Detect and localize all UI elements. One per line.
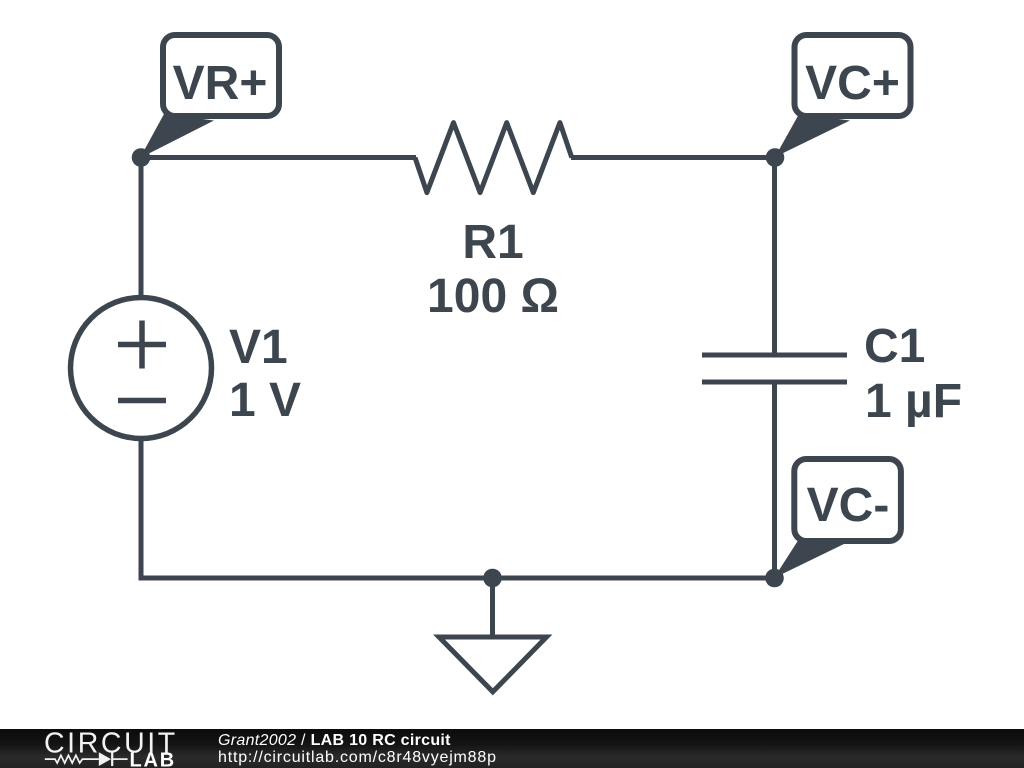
ground symbol triangle xyxy=(439,637,547,692)
node ground junction dot xyxy=(483,569,502,588)
node VR+ junction dot xyxy=(132,148,151,167)
svg-text:LAB: LAB xyxy=(130,750,177,768)
svg-text:VC-: VC- xyxy=(807,479,890,532)
wire right vertical upper: node VC+ down to capacitor C1 top plate xyxy=(772,158,777,356)
svg-text:100 Ω: 100 Ω xyxy=(427,270,559,323)
flag VR+ box xyxy=(163,35,279,116)
wire left vertical lower: V1 bottom terminal down to bottom rail xyxy=(139,438,144,580)
flag VR+ pointer wedge xyxy=(140,114,214,158)
svg-text:C1: C1 xyxy=(864,320,925,373)
V1 plus sign xyxy=(118,321,166,369)
wire left vertical upper: node VR+ down to V1 top terminal xyxy=(139,158,144,299)
flag VC+ box xyxy=(795,35,911,116)
svg-text:V1: V1 xyxy=(229,321,288,374)
wire bottom rail: from V1 leg to node VC- xyxy=(139,576,775,581)
flag VC+ pointer wedge xyxy=(775,114,850,157)
capacitor C1 bottom plate xyxy=(702,380,847,385)
svg-text:http://circuitlab.com/c8r48vye: http://circuitlab.com/c8r48vyejm88p xyxy=(218,749,497,766)
flag VC- box xyxy=(794,459,901,541)
svg-text:1 V: 1 V xyxy=(229,374,301,427)
node VC- junction dot xyxy=(765,569,784,588)
node VC+ junction dot xyxy=(766,148,785,167)
svg-text:1 µF: 1 µF xyxy=(865,375,962,428)
flag VC- pointer wedge xyxy=(774,539,846,578)
svg-text:R1: R1 xyxy=(462,216,523,269)
resistor R1 zigzag body xyxy=(415,123,572,193)
ground stem wire xyxy=(490,578,495,637)
capacitor C1 top plate xyxy=(702,353,847,358)
footer bar xyxy=(0,729,1024,768)
wire right vertical lower: capacitor C1 bottom plate down to node VC- xyxy=(772,382,777,578)
svg-text:Grant2002 / LAB 10 RC circuit: Grant2002 / LAB 10 RC circuit xyxy=(218,732,451,749)
V1 minus sign xyxy=(118,398,166,404)
footer logo schematic squiggle: diode xyxy=(99,752,128,766)
voltage source V1 circle body xyxy=(71,298,212,439)
wire top-left: node VR+ to resistor R1 left lead xyxy=(140,155,416,160)
svg-text:VR+: VR+ xyxy=(173,57,268,110)
svg-text:VC+: VC+ xyxy=(805,57,900,110)
wire top-right: resistor R1 right lead to node VC+ xyxy=(571,155,775,160)
footer logo schematic squiggle: resistor xyxy=(45,755,99,763)
